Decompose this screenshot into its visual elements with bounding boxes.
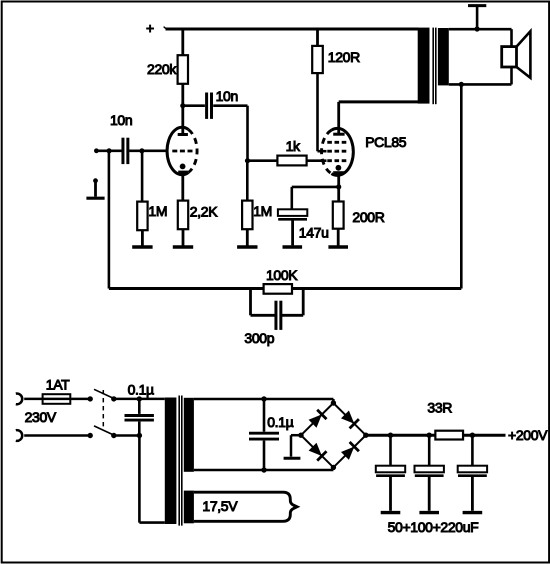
svg-text:17,5V: 17,5V xyxy=(202,498,238,514)
svg-text:+: + xyxy=(146,20,154,36)
svg-text:100K: 100K xyxy=(266,267,298,283)
svg-text:0.1µ: 0.1µ xyxy=(128,381,154,397)
svg-text:1M: 1M xyxy=(253,203,272,219)
svg-text:2,2K: 2,2K xyxy=(190,203,218,219)
svg-text:220k: 220k xyxy=(147,61,177,77)
svg-text:50+100+220uF: 50+100+220uF xyxy=(388,519,479,535)
svg-text:+200V: +200V xyxy=(508,427,548,443)
svg-text:10n: 10n xyxy=(110,112,132,128)
svg-text:200R: 200R xyxy=(352,209,384,225)
svg-text:120R: 120R xyxy=(328,49,360,65)
svg-text:1M: 1M xyxy=(148,203,167,219)
svg-text:10n: 10n xyxy=(216,88,238,104)
svg-text:0.1µ: 0.1µ xyxy=(267,414,293,430)
svg-text:147u: 147u xyxy=(299,225,329,241)
svg-text:33R: 33R xyxy=(427,399,452,415)
svg-text:1k: 1k xyxy=(286,138,301,154)
svg-text:PCL85: PCL85 xyxy=(365,134,407,150)
svg-text:1AT: 1AT xyxy=(46,377,70,393)
svg-text:230V: 230V xyxy=(25,409,57,425)
svg-text:300p: 300p xyxy=(244,330,274,346)
